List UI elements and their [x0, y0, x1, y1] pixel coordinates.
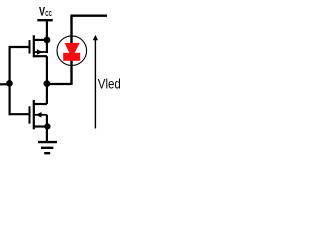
svg-text:Vled: Vled — [98, 76, 121, 91]
svg-text:CC: CC — [45, 9, 52, 18]
